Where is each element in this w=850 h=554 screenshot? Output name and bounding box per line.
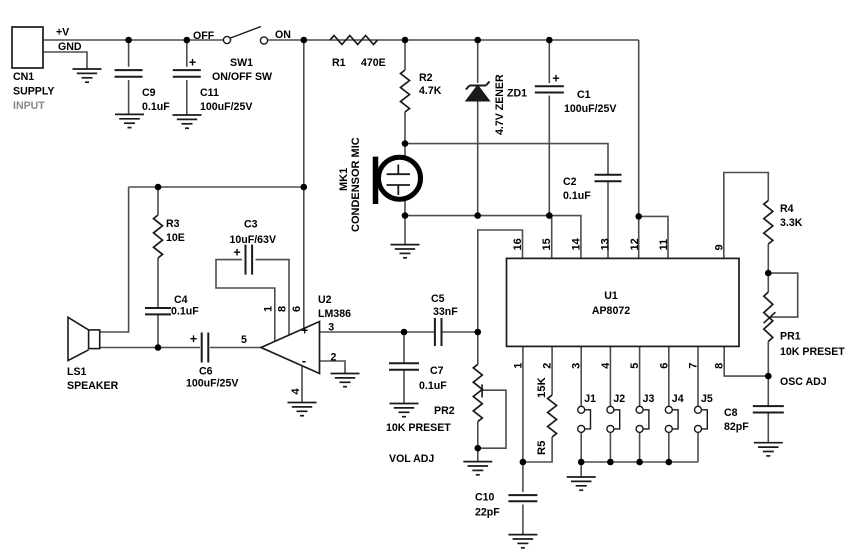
svg-text:8: 8 [277, 306, 289, 312]
svg-text:22pF: 22pF [475, 507, 500, 519]
resistor R4 [764, 201, 773, 245]
svg-text:VOL ADJ: VOL ADJ [389, 453, 434, 465]
svg-text:3: 3 [328, 322, 334, 334]
wire pin 7 to J5 [697, 346, 699, 406]
svg-text:LS1: LS1 [67, 366, 87, 378]
svg-text:SPEAKER: SPEAKER [67, 380, 119, 392]
wire PR1 bottom to OSC node [767, 342, 769, 377]
wire +V rail from CN1 to switch [43, 39, 224, 41]
svg-text:8: 8 [714, 363, 726, 369]
svg-text:U2: U2 [318, 294, 332, 306]
svg-text:16: 16 [512, 238, 524, 250]
svg-text:CONDENSOR MIC: CONDENSOR MIC [350, 137, 362, 232]
svg-text:3: 3 [571, 363, 583, 369]
wire pin 6 of U2 from node y187 [303, 187, 305, 329]
ground C9 [115, 114, 144, 127]
svg-text:2: 2 [331, 352, 337, 364]
svg-text:SW1: SW1 [230, 57, 253, 69]
wire OSC node to C8 [767, 376, 769, 406]
svg-text:ON/OFF SW: ON/OFF SW [212, 71, 272, 83]
svg-text:12: 12 [629, 238, 641, 250]
wire PR2 top [477, 332, 479, 364]
svg-text:PR2: PR2 [434, 405, 455, 417]
wire pin 3 to J1 [580, 346, 582, 406]
svg-text:6: 6 [658, 363, 670, 369]
resistor R2 [401, 70, 410, 112]
wire R2 bottom to mic node [404, 112, 406, 144]
wire bus pin1 to R5 bottom [523, 437, 552, 462]
svg-text:GND: GND [58, 41, 82, 53]
capacitor C7 [389, 363, 419, 370]
wire C6 to op-amp pin 5 [210, 347, 261, 349]
wire C3 right side to pin 8 [256, 260, 290, 335]
svg-text:2: 2 [542, 363, 554, 369]
svg-text:C3: C3 [244, 219, 258, 231]
svg-text:0.1uF: 0.1uF [171, 306, 199, 318]
wire C5 to PR2/pin16 node [442, 331, 478, 333]
wire pin 4 of U2 to ground [301, 366, 303, 403]
wire speaker top to +V node wire [100, 187, 129, 332]
svg-text:3.3K: 3.3K [780, 217, 803, 229]
svg-text:R3: R3 [166, 218, 180, 230]
wire mic top node to C2 [405, 144, 608, 175]
switch SW1 [223, 36, 230, 43]
wire PR2 wiper loop [478, 390, 506, 448]
svg-text:100uF/25V: 100uF/25V [186, 378, 238, 390]
svg-text:C9: C9 [142, 87, 156, 99]
svg-text:C10: C10 [475, 492, 495, 504]
svg-text:+V: +V [56, 27, 69, 39]
wire pin 1 of U2 up to C3 loop [216, 260, 275, 342]
svg-text:4: 4 [600, 362, 612, 369]
svg-text:10K PRESET: 10K PRESET [386, 422, 451, 434]
svg-text:C6: C6 [199, 366, 213, 378]
capacitor C9 [115, 70, 143, 77]
ground C8 [754, 443, 783, 456]
svg-text:1: 1 [262, 306, 274, 312]
svg-text:J4: J4 [672, 393, 684, 405]
wire R3 branch [157, 187, 159, 215]
svg-text:R5: R5 [536, 441, 548, 455]
speaker LS1 [89, 330, 100, 349]
IC U1 AP8072 [507, 258, 740, 346]
svg-text:4.7V ZENER: 4.7V ZENER [494, 74, 506, 135]
svg-text:C2: C2 [563, 176, 577, 188]
wire mic leads [404, 144, 406, 159]
capacitor C3 [246, 245, 253, 275]
wire pin 4 to J2 [609, 346, 611, 406]
wire R2 branch top [404, 40, 406, 70]
svg-text:+: + [189, 56, 196, 70]
svg-text:R2: R2 [419, 72, 433, 84]
svg-text:6: 6 [291, 306, 303, 312]
svg-text:C1: C1 [577, 89, 591, 101]
wire mic bottom to ground [404, 216, 406, 245]
svg-text:C8: C8 [724, 407, 738, 419]
capacitor C5 [435, 318, 442, 346]
wire rail from switch ON to corner above pin 12 [268, 39, 639, 41]
wire GND from CN1 to ground [43, 52, 87, 69]
jumper J1 [578, 406, 585, 413]
ground CN1 [73, 69, 102, 82]
wire pin 5 to J3 [639, 346, 641, 406]
svg-text:J5: J5 [701, 393, 713, 405]
capacitor C1 [535, 86, 564, 92]
svg-text:82pF: 82pF [724, 421, 749, 433]
svg-text:13: 13 [600, 238, 612, 250]
jumper J4 [665, 406, 672, 413]
svg-text:10E: 10E [166, 232, 185, 244]
ground U2 pin4 [288, 403, 317, 416]
svg-text:MK1: MK1 [338, 168, 350, 191]
wire pin 8 to OSC node [724, 346, 768, 376]
jumper J3 [636, 406, 643, 413]
svg-text:C5: C5 [431, 293, 445, 305]
svg-text:R4: R4 [780, 203, 794, 215]
wire pin 6 to J4 [668, 346, 670, 406]
wire C7 branch [403, 332, 405, 363]
svg-text:R1: R1 [332, 57, 346, 69]
wire y187 horizontal [129, 186, 304, 188]
op-amp U2 LM386 [261, 322, 320, 374]
capacitor C8 [753, 406, 784, 412]
wire vertical +V down-left branch to node at y187 [303, 40, 305, 187]
wire C1 branch [548, 40, 550, 83]
wire ground bus mic to pin 14 [405, 216, 581, 259]
wire ZD1 bottom to ground bus [477, 100, 479, 216]
svg-text:U1: U1 [604, 290, 618, 302]
svg-text:OFF: OFF [193, 30, 215, 42]
wire pin 3 of U2 to C5 [320, 331, 435, 333]
resistor R1 [330, 36, 378, 45]
svg-text:9: 9 [713, 244, 725, 250]
svg-text:33nF: 33nF [433, 306, 458, 318]
svg-text:0.1uF: 0.1uF [142, 101, 170, 113]
svg-text:10K PRESET: 10K PRESET [780, 346, 845, 358]
svg-text:5: 5 [241, 334, 247, 346]
capacitor C11 [173, 70, 201, 77]
junction dots [125, 37, 132, 44]
wire pin 15 stub [551, 216, 553, 259]
wire pin 9 up to R4 [724, 173, 769, 259]
wire PR1 wiper loop [768, 273, 797, 317]
svg-text:ZD1: ZD1 [507, 88, 527, 100]
svg-text:100uF/25V: 100uF/25V [200, 101, 252, 113]
resistor R5 [548, 395, 557, 437]
svg-text:+: + [552, 72, 559, 86]
svg-text:LM386: LM386 [318, 308, 351, 320]
svg-text:10uF/63V: 10uF/63V [230, 234, 277, 246]
svg-text:ON: ON [275, 29, 291, 41]
svg-text:J1: J1 [584, 393, 596, 405]
svg-text:100uF/25V: 100uF/25V [564, 103, 616, 115]
ground C10 [508, 535, 537, 548]
wire PR2 bottom to dot and ground [477, 422, 479, 462]
condenser mic MK1 [379, 157, 421, 199]
wire pin 2 of U2 to ground [320, 361, 346, 374]
svg-text:4.7K: 4.7K [419, 85, 442, 97]
svg-text:+: + [233, 246, 240, 260]
ground C11 [173, 115, 202, 128]
wire ZD1 branch top [477, 40, 479, 83]
svg-text:14: 14 [570, 237, 582, 250]
wire speaker bottom to C6 [100, 347, 200, 349]
svg-text:+: + [190, 332, 197, 346]
wire pin16 loop from C5 node [478, 230, 523, 332]
svg-text:-: - [302, 353, 306, 368]
wire jog from pin12 node to pin 11 [639, 216, 668, 258]
svg-text:15K: 15K [536, 376, 548, 398]
wire C9 branch [128, 40, 130, 67]
capacitor C4 [145, 308, 171, 314]
wire J bottoms to ground bus [580, 432, 582, 462]
ground mic [391, 245, 420, 258]
wire R4 bottom to PR1 [767, 244, 769, 292]
ground U2 pin2 [331, 374, 360, 387]
svg-text:C7: C7 [430, 365, 444, 377]
svg-text:+: + [301, 325, 308, 337]
capacitor C6 [202, 333, 209, 363]
wire C4 to speaker bottom wire [157, 314, 159, 347]
svg-text:4: 4 [290, 388, 302, 395]
connector CN1 [12, 27, 43, 68]
wire +V corner down to pins 12 and 11 [638, 40, 640, 258]
svg-text:5: 5 [629, 363, 641, 369]
preset PR1 [764, 292, 773, 342]
svg-text:INPUT: INPUT [13, 100, 45, 112]
svg-text:OSC ADJ: OSC ADJ [780, 376, 827, 388]
svg-text:0.1uF: 0.1uF [419, 380, 447, 392]
svg-text:CN1: CN1 [13, 71, 34, 83]
ground J bus [567, 477, 596, 490]
ground C7 [390, 404, 419, 417]
svg-text:J3: J3 [643, 393, 655, 405]
svg-text:470E: 470E [361, 57, 386, 69]
jumper J2 [607, 406, 614, 413]
svg-text:SUPPLY: SUPPLY [13, 86, 54, 98]
preset PR2 [473, 364, 482, 421]
svg-text:1: 1 [512, 363, 524, 369]
capacitor C10 [508, 495, 537, 501]
wire pin 2 to R5 top [551, 346, 553, 395]
jumper J5 [695, 406, 702, 413]
wire C10 branch [522, 462, 524, 492]
svg-text:C11: C11 [200, 87, 219, 99]
svg-text:0.1uF: 0.1uF [563, 190, 591, 202]
svg-text:AP8072: AP8072 [592, 305, 630, 317]
capacitor C2 [595, 175, 622, 181]
svg-text:7: 7 [688, 363, 700, 369]
svg-text:15: 15 [541, 238, 553, 250]
wire J ground bus [581, 461, 698, 463]
svg-text:11: 11 [658, 239, 670, 251]
ground PR2 [463, 462, 492, 475]
svg-text:C4: C4 [174, 294, 188, 306]
wire C2 bottom to pin 13 [607, 181, 609, 258]
wire C11 branch [186, 40, 188, 67]
svg-text:J2: J2 [613, 393, 625, 405]
zener diode ZD1 [466, 82, 490, 101]
wire pin 1 down to bus [522, 346, 524, 462]
resistor R3 [154, 215, 163, 258]
svg-text:PR1: PR1 [780, 331, 801, 343]
wire J bus ground stub [580, 462, 582, 477]
